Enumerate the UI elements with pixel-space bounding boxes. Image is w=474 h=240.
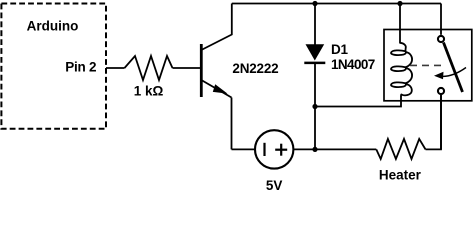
voltage source V1 5V circle [255, 130, 293, 168]
wire R1 to base [173, 67, 201, 69]
wire Pin2 to R1 [106, 67, 125, 69]
svg-text:Arduino: Arduino [27, 19, 79, 34]
svg-text:Heater: Heater [379, 167, 422, 182]
switch motion arrow arc [438, 68, 466, 77]
diode D1 triangle [306, 44, 325, 60]
svg-text:D1: D1 [331, 42, 348, 57]
svg-text:1N4007: 1N4007 [331, 57, 375, 72]
switch top contact [438, 36, 444, 42]
wire emitter down to bottom rail [231, 98, 233, 150]
node diode / coil return tee [312, 104, 317, 109]
diode D1 cathode bar [304, 62, 325, 65]
node top rail / diode [312, 1, 317, 6]
wire rail right end down to switch [440, 4, 442, 35]
svg-text:1 kΩ: 1 kΩ [134, 83, 164, 98]
switch bottom contact [438, 88, 444, 94]
transistor Q1 2N2222 base bar [200, 44, 203, 97]
wire rail down to diode [314, 4, 316, 45]
relay actuation dashed link [410, 64, 445, 66]
svg-text:5V: 5V [266, 178, 283, 190]
transistor collector lead [201, 4, 232, 51]
transistor emitter lead with arrow [201, 80, 231, 98]
resistor R1 1 kOhm [125, 56, 173, 80]
source minus terminal mark [263, 143, 265, 156]
wire source to heater [293, 148, 376, 150]
wire rail down to relay coil top [399, 4, 401, 44]
wire heater up to switch [426, 95, 442, 149]
svg-text:2N2222: 2N2222 [232, 61, 278, 76]
wire top rail [232, 3, 441, 5]
switch blade [444, 43, 463, 93]
wire bottom rail emitter to source [232, 148, 256, 150]
svg-text:Pin 2: Pin 2 [65, 60, 96, 75]
node bottom rail / diode branch [312, 147, 317, 152]
wire coil return (tee to relay coil bottom) [315, 96, 401, 107]
source plus terminal mark [275, 149, 287, 151]
wire switch bottom to heater corner [440, 94, 442, 149]
node top rail / relay coil [397, 1, 402, 6]
wire diode cathode down to bottom rail [314, 63, 316, 149]
resistor Heater [376, 139, 425, 159]
Arduino module box (dashed) [1, 4, 106, 129]
relay K1 body box [384, 30, 472, 101]
relay coil [391, 43, 412, 97]
